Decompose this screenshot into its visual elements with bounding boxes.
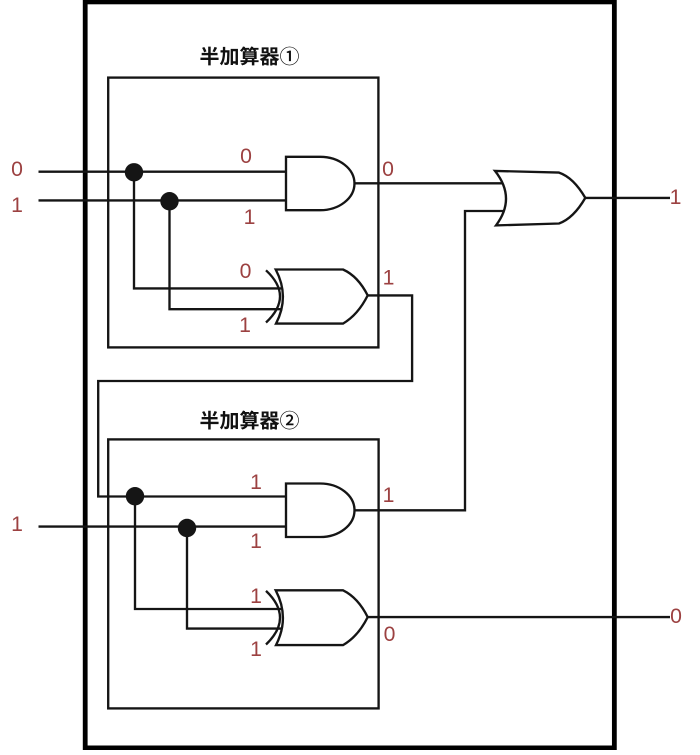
wire AND1 output to OR input [355, 182, 506, 184]
svg-text:1: 1 [383, 484, 395, 507]
junction node D [178, 519, 196, 537]
svg-text:0: 0 [384, 623, 396, 646]
svg-text:1: 1 [250, 585, 262, 608]
wire AND2 output routed up to OR bottom input [355, 211, 506, 510]
wire XOR2 output (sum) [368, 616, 670, 618]
svg-text:1: 1 [250, 530, 262, 553]
XOR gate 1 input arc [266, 270, 280, 322]
XOR gate 2 input arc [266, 591, 280, 645]
svg-text:1: 1 [383, 267, 395, 290]
XOR gate 1 body [276, 270, 368, 324]
AND gate 2 [286, 484, 355, 538]
wire from node A down to XOR1 top input [134, 172, 284, 289]
svg-text:1: 1 [239, 314, 251, 337]
wire from node D down to XOR2 bottom input [187, 527, 284, 629]
svg-text:0: 0 [240, 260, 252, 283]
svg-text:1: 1 [11, 513, 23, 536]
title: half-adder 2 (kanji) [200, 411, 298, 430]
junction node C [126, 487, 144, 505]
svg-text:1: 1 [250, 638, 262, 661]
svg-text:0: 0 [382, 158, 394, 181]
wire XOR1 output routed to half-adder 2 [98, 295, 412, 496]
wire OR output [585, 197, 670, 199]
wire from node C down to XOR2 top input [135, 497, 284, 610]
svg-text:0: 0 [670, 605, 682, 628]
wire input B [39, 199, 287, 201]
svg-text:1: 1 [670, 186, 682, 209]
junction node B [160, 192, 178, 210]
svg-text:0: 0 [11, 158, 23, 181]
title: half-adder 1 (kanji) [200, 46, 298, 65]
junction node A [125, 163, 143, 181]
XOR gate 2 body [276, 590, 368, 645]
OR gate [495, 171, 585, 226]
svg-text:1: 1 [244, 206, 256, 229]
svg-text:1: 1 [11, 194, 23, 217]
svg-text:1: 1 [250, 471, 262, 494]
half-adder 2 box [108, 439, 378, 708]
wire input C [39, 525, 287, 527]
half-adder 1 box [108, 78, 378, 348]
wire input A [39, 171, 287, 173]
wire from node B down to XOR1 bottom input [170, 200, 285, 309]
outer border frame [85, 2, 614, 748]
svg-text:0: 0 [240, 145, 252, 168]
AND gate 1 [286, 157, 354, 210]
